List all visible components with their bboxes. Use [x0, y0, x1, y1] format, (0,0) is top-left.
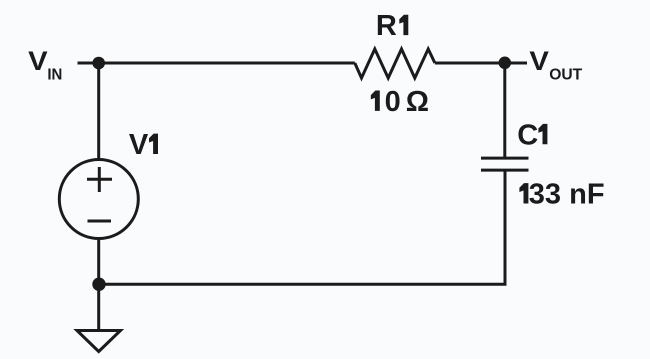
V1 minus sign [88, 220, 112, 223]
node C junction dot [92, 278, 105, 291]
label C1 digit 1 [538, 124, 547, 144]
svg-text:0: 0 [385, 86, 401, 118]
node A junction dot [92, 57, 105, 70]
label R1 digit 1 [399, 15, 408, 35]
wire: node B down to capacitor C1 top plate [503, 63, 506, 158]
capacitor C1 top plate [481, 157, 529, 160]
svg-text:C: C [517, 119, 538, 151]
wire top: node A to resistor R1 [99, 62, 355, 65]
wire: node C down to ground [97, 284, 100, 330]
svg-text:V: V [129, 129, 149, 161]
label 10 Ω value of R1 [371, 91, 380, 111]
wire: node A down to voltage source V1 [97, 63, 100, 160]
svg-text:V: V [28, 46, 48, 76]
node B junction dot [499, 57, 512, 70]
svg-text:IN: IN [47, 67, 62, 84]
wire bottom: node C to capacitor branch corner [99, 170, 505, 284]
V1 plus sign [87, 167, 112, 192]
voltage source V1 circle [59, 160, 138, 239]
wire: V1 bottom to node C [97, 239, 100, 285]
capacitor C1 bottom plate [481, 169, 529, 172]
ground symbol [77, 331, 121, 352]
svg-text:R: R [376, 10, 397, 42]
label V1 digit 1 [149, 134, 158, 154]
svg-text:33 nF: 33 nF [529, 179, 605, 211]
label 133 nF value of C1 [519, 183, 528, 203]
svg-text:OUT: OUT [549, 67, 582, 84]
wire V_IN stub [78, 62, 99, 65]
wire V_OUT stub [505, 62, 527, 65]
resistor R1 zigzag [355, 49, 435, 78]
svg-text:V: V [529, 46, 549, 76]
svg-text:Ω: Ω [406, 86, 429, 118]
wire: resistor R1 to node B [435, 62, 505, 65]
